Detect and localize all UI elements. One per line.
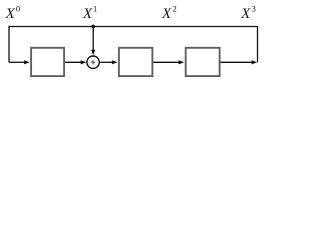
- wire feedback top line with left and right verticals: [9, 27, 258, 63]
- XOR gate circle: [87, 56, 99, 68]
- wire stage2 output to stage 3: [153, 60, 184, 64]
- node X1 label: [82, 4, 97, 22]
- register stage box 2: [119, 48, 152, 76]
- svg-text:3: 3: [252, 4, 256, 14]
- wire input arrow into stage 1: [9, 60, 30, 64]
- svg-text:X: X: [161, 6, 172, 22]
- register stage box 1: [31, 48, 64, 76]
- wire stage3 output to feedback: [221, 60, 258, 64]
- svg-text:1: 1: [93, 4, 97, 14]
- register stage box 3: [186, 48, 220, 76]
- wire stage1 output to XOR: [65, 60, 86, 64]
- svg-text:0: 0: [16, 4, 20, 14]
- node X3 label: [240, 4, 256, 22]
- wire XOR output to stage 2: [100, 60, 117, 64]
- node junction dot at X1 tap: [91, 25, 95, 29]
- svg-text:X: X: [240, 6, 251, 22]
- XOR plus sign: [91, 60, 95, 64]
- svg-text:2: 2: [173, 4, 177, 14]
- node X2 label: [161, 4, 177, 22]
- svg-text:X: X: [5, 6, 16, 22]
- wire X1 tap down into XOR: [91, 27, 95, 56]
- node X0 label: [5, 4, 21, 22]
- svg-text:X: X: [82, 6, 93, 22]
